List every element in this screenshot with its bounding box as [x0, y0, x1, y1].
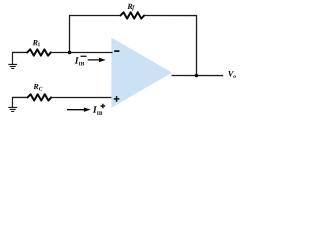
- svg-text:f: f: [132, 5, 135, 11]
- superscript minus of I_IB: [81, 55, 87, 57]
- wire: R1 to op-amp inverting input: [51, 51, 113, 53]
- svg-text:IB: IB: [97, 111, 103, 117]
- arrow: IB+ current direction: [67, 109, 85, 111]
- ground (top left, at R1): [8, 52, 17, 68]
- svg-text:IB: IB: [79, 61, 85, 67]
- wire: bottom ground to RC: [12, 96, 28, 98]
- wire: op-amp output: [171, 75, 223, 77]
- svg-text:1: 1: [38, 42, 41, 48]
- node: junction at inverting input: [68, 51, 72, 55]
- arrow: IB- current direction: [88, 59, 100, 61]
- resistor RC: [28, 94, 52, 100]
- superscript plus of I_IB: [101, 104, 106, 109]
- wire: feedback riser from inverting node: [70, 15, 121, 53]
- resistor R1: [27, 49, 51, 55]
- ground (bottom left, at RC): [8, 97, 17, 111]
- resistor Rf: [121, 12, 145, 18]
- node: output junction: [195, 74, 199, 78]
- op-amp inverting input minus sign: [114, 50, 119, 52]
- wire: Rf to output drop: [144, 16, 197, 76]
- svg-text:o: o: [233, 74, 236, 80]
- op-amp U1: [111, 38, 172, 108]
- wire: top ground to R1: [12, 51, 27, 53]
- svg-text:C: C: [39, 86, 43, 92]
- op-amp non-inverting input plus sign: [114, 96, 120, 102]
- wire: RC to op-amp non-inverting input: [51, 96, 111, 98]
